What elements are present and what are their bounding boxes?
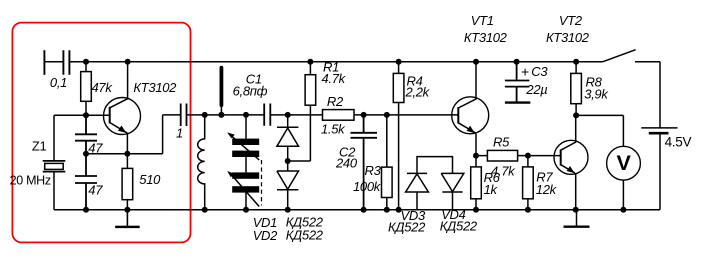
svg-text:12k: 12k bbox=[536, 182, 558, 197]
junction bottom rail / VT2 emitter / ground bbox=[573, 207, 579, 213]
junction osc emitter / 510 bbox=[124, 151, 130, 157]
wire base rail of oscillator bbox=[54, 114, 110, 116]
svg-text:0,1: 0,1 bbox=[50, 75, 67, 90]
capacitor C2 bbox=[351, 115, 378, 210]
capacitor 0,1 bbox=[63, 50, 69, 75]
svg-text:+: + bbox=[521, 64, 529, 80]
svg-text:47: 47 bbox=[88, 140, 103, 155]
varicap VD pair plates bbox=[245, 115, 247, 210]
junction top rail / VT1 collector bbox=[473, 59, 479, 65]
junction mid rail / VD1 bbox=[285, 112, 291, 118]
resistor R7 bbox=[527, 156, 529, 210]
svg-text:4.7k: 4.7k bbox=[322, 71, 347, 86]
svg-text:КД522: КД522 bbox=[286, 228, 324, 243]
svg-text:47k: 47k bbox=[92, 80, 114, 95]
svg-text:C3: C3 bbox=[531, 64, 548, 79]
battery GB 4.5V bbox=[641, 62, 677, 128]
svg-text:3,9k: 3,9k bbox=[584, 86, 609, 101]
wire emitter junction bbox=[86, 115, 181, 154]
diode VD3 bbox=[406, 173, 429, 209]
junction bottom rail / varicap bbox=[243, 207, 249, 213]
junction R8 / VT2 collector / voltmeter bbox=[573, 112, 579, 118]
varicap arrow 2 bbox=[231, 174, 260, 207]
junction VD1-VD2 / R1 bbox=[285, 158, 291, 164]
bottom rail wire bbox=[54, 209, 660, 211]
svg-text:R2: R2 bbox=[327, 94, 344, 109]
antenna probe bar bbox=[220, 106, 222, 115]
svg-text:1: 1 bbox=[176, 126, 183, 141]
junction bottom rail / R7 bbox=[525, 207, 531, 213]
emitter arrow VT2 bbox=[567, 166, 575, 173]
svg-text:6,8пф: 6,8пф bbox=[233, 84, 268, 99]
svg-text:47: 47 bbox=[88, 183, 103, 198]
diode VD4 bbox=[441, 173, 464, 209]
junction bottom rail / R3 bbox=[384, 207, 390, 213]
resistor R1 bbox=[288, 62, 311, 161]
resistor R3 bbox=[386, 115, 388, 210]
junction top rail / R4 bbox=[396, 59, 402, 65]
capacitor C3 bbox=[505, 62, 529, 103]
svg-text:VT1: VT1 bbox=[471, 13, 494, 28]
svg-text:2,2k: 2,2k bbox=[405, 84, 431, 99]
junction top rail / R1 bbox=[307, 59, 313, 65]
resistor R4 bbox=[398, 62, 400, 210]
svg-text:V: V bbox=[616, 151, 631, 175]
transistor VT osc KT3102 bbox=[104, 98, 141, 135]
junction bottom rail / 510 / ground bbox=[124, 207, 130, 213]
capacitor 47 (lower) bbox=[75, 154, 97, 210]
svg-text:4.5V: 4.5V bbox=[665, 135, 692, 150]
svg-text:22µ: 22µ bbox=[525, 82, 547, 97]
junction osc base / 47k bbox=[83, 112, 89, 118]
svg-text:240: 240 bbox=[335, 156, 358, 171]
wire VT2 base bbox=[528, 155, 561, 157]
voltmeter V bbox=[607, 146, 641, 180]
junction caps 47 midpoint bbox=[83, 151, 89, 157]
capacitor 1 (coupling) bbox=[181, 104, 187, 127]
svg-text:VD2: VD2 bbox=[253, 228, 278, 243]
varicap arrow 1 bbox=[231, 135, 260, 160]
junction R5 / R7 / VT2 base bbox=[525, 153, 531, 159]
svg-text:КД522: КД522 bbox=[388, 219, 426, 234]
svg-text:КТ3102: КТ3102 bbox=[464, 30, 508, 45]
junction top rail / 47k bbox=[83, 59, 89, 65]
capacitor 47 (upper) bbox=[75, 115, 97, 154]
resistor 47k bbox=[85, 62, 87, 115]
svg-text:Z1: Z1 bbox=[32, 138, 47, 153]
svg-text:КТ3102: КТ3102 bbox=[546, 30, 590, 45]
junction tank rail / varicap bbox=[243, 112, 249, 118]
mid rail wire bbox=[187, 114, 458, 116]
wire R8 to voltmeter bbox=[576, 115, 623, 146]
svg-text:КТ3102: КТ3102 bbox=[133, 80, 177, 95]
diode VD1 bbox=[277, 115, 299, 161]
capacitor C1 bbox=[264, 104, 270, 126]
junction top rail / R8 bbox=[573, 59, 579, 65]
switch SA bbox=[603, 50, 636, 62]
svg-text:20 MHz: 20 MHz bbox=[10, 173, 51, 187]
resistor R6 bbox=[475, 156, 477, 210]
junction mid rail / R3 bbox=[384, 112, 390, 118]
ground (VT2 emitter) bbox=[576, 210, 578, 227]
transistor VT2 bbox=[554, 140, 588, 174]
red outline box around oscillator bbox=[12, 23, 190, 243]
junction top rail / C3 bbox=[514, 59, 520, 65]
svg-text:1k: 1k bbox=[484, 182, 499, 197]
top rail wire bbox=[44, 61, 660, 63]
emitter arrow VT1 bbox=[467, 126, 475, 133]
wire Z1 branch bbox=[53, 115, 55, 210]
junction mid rail / C2 bbox=[361, 112, 367, 118]
junction tank rail / coil bbox=[202, 112, 208, 118]
ground (oscillator) bbox=[115, 210, 139, 227]
resistor R2 bbox=[323, 110, 355, 121]
crystal Z1 20 MHz bbox=[43, 161, 66, 172]
diode VD2 bbox=[277, 161, 299, 210]
junction top rail / osc collector bbox=[125, 59, 131, 65]
svg-text:1.5k: 1.5k bbox=[321, 121, 346, 136]
svg-text:КД522: КД522 bbox=[440, 219, 478, 234]
input terminal bar bbox=[43, 50, 45, 75]
svg-text:100k: 100k bbox=[353, 179, 382, 194]
transistor VT1 bbox=[452, 97, 489, 134]
svg-text:VT2: VT2 bbox=[559, 13, 583, 28]
junction bottom rail / C2 bbox=[361, 207, 367, 213]
junction bottom rail / caps 47 bbox=[83, 207, 89, 213]
gang dashed link bbox=[261, 160, 263, 206]
resistor R8 bbox=[575, 62, 577, 116]
svg-text:R3: R3 bbox=[365, 163, 382, 178]
junction bottom rail / VD2 bbox=[285, 207, 291, 213]
junction bottom rail / coil bbox=[202, 207, 208, 213]
svg-text:R5: R5 bbox=[493, 134, 510, 149]
resistor 510 bbox=[126, 154, 128, 210]
junction bottom rail / R4 bbox=[396, 207, 402, 213]
junction bottom rail / voltmeter bbox=[620, 207, 626, 213]
coil L bbox=[198, 115, 205, 210]
resistor R5 bbox=[476, 155, 528, 157]
junction VT1 emitter / R5 / R6 bbox=[473, 153, 479, 159]
svg-text:510: 510 bbox=[139, 172, 161, 187]
junction bottom rail / R6 bbox=[473, 207, 479, 213]
bracket VD3-VD4 bbox=[417, 157, 453, 174]
emitter arrow osc bbox=[118, 126, 126, 133]
junction tank rail / probe bar bbox=[218, 112, 224, 118]
